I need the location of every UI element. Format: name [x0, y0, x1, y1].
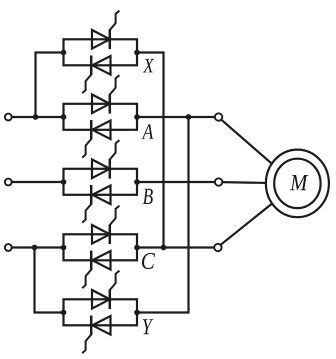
wire A right node to output 1 [137, 116, 215, 118]
thyristor pair block C: frame [64, 234, 138, 260]
wire to X left node [35, 51, 64, 53]
wire L3 to C left node [12, 246, 64, 248]
thyristor VX1 cathode bar [109, 30, 112, 50]
wire output 3 to motor (diagonal) [221, 186, 294, 245]
node junction J2 [32, 245, 38, 251]
thyristor pair block Y: frame [64, 299, 138, 325]
label B [143, 189, 153, 204]
wire C right node to output 3 [137, 246, 215, 248]
thyristor VX2 gate lead [82, 75, 91, 94]
thyristor VY2 cathode bar [90, 316, 93, 336]
node junction bus2 / A row [186, 114, 192, 120]
wire J2 down to Y row [33, 248, 35, 313]
output terminal O1 [215, 113, 222, 120]
label A [142, 124, 154, 139]
input terminal L3 [5, 244, 12, 251]
thyristor VB2 gate lead [82, 204, 91, 223]
node X left [61, 50, 67, 56]
node C left [61, 245, 67, 251]
node B right [134, 179, 140, 185]
label C [142, 253, 155, 269]
wire output 1 to motor (diagonal) [221, 120, 294, 183]
thyristor VX1 gate lead [110, 11, 120, 30]
thyristor VX2 cathode bar [90, 56, 93, 76]
thyristor VY2 (bottom, points left) [92, 316, 110, 335]
thyristor VY1 gate lead [110, 271, 120, 290]
node junction bus1 / C row [161, 245, 167, 251]
motor label M [290, 175, 308, 190]
label X [143, 59, 154, 72]
wire B right node to output 2 [137, 181, 215, 183]
wire bus2 down to Y right node [137, 117, 189, 313]
thyristor VB1 gate lead [110, 140, 120, 159]
thyristor VC1 cathode bar [109, 225, 112, 245]
wire L1 to A left node [12, 116, 64, 118]
thyristor pair block X: frame [64, 39, 138, 65]
thyristor VA1 cathode bar [109, 94, 112, 114]
wire J1 up to X row [34, 53, 36, 118]
thyristor VX2 (bottom, points left) [92, 56, 110, 75]
input terminal L2 [5, 179, 12, 186]
wire output 2 to motor [222, 182, 280, 183]
thyristor VB1 cathode bar [109, 159, 112, 179]
node Y left [61, 310, 67, 316]
thyristor VA2 gate lead [82, 139, 91, 158]
thyristor VC2 gate lead [82, 270, 91, 289]
node Y right [134, 310, 140, 316]
label Y [143, 319, 154, 334]
thyristor VX1 (top, points right) [92, 30, 110, 49]
node junction J1 [33, 114, 39, 120]
thyristor VC1 gate lead [110, 206, 120, 225]
thyristor VA1 (top, points right) [92, 95, 110, 114]
wire L2 to B left node [12, 181, 64, 183]
motor M inner circle [274, 159, 320, 208]
node B left [61, 179, 67, 185]
thyristor pair block B: frame [64, 169, 138, 195]
node C right [134, 245, 140, 251]
node A left [61, 114, 67, 120]
thyristor VB2 (bottom, points left) [92, 186, 110, 205]
thyristor VA2 cathode bar [90, 120, 93, 140]
thyristor VC2 (bottom, points left) [92, 251, 110, 270]
node A right [134, 114, 140, 120]
thyristor VB1 (top, points right) [92, 160, 110, 179]
thyristor VY1 (top, points right) [92, 290, 110, 309]
output terminal O2 [215, 178, 222, 185]
thyristor pair block A: frame [64, 104, 138, 130]
node X right [134, 50, 140, 56]
thyristor VC1 (top, points right) [92, 225, 110, 244]
wire to Y left node [34, 311, 64, 313]
thyristor VY2 gate lead [82, 335, 91, 354]
thyristor VC2 cathode bar [90, 251, 93, 271]
input terminal L1 [5, 114, 12, 121]
motor M outer circle [266, 150, 329, 218]
thyristor VA1 gate lead [110, 75, 120, 94]
thyristor VB2 cathode bar [90, 185, 93, 205]
thyristor VA2 (bottom, points left) [92, 121, 110, 140]
thyristor VY1 cathode bar [109, 290, 112, 310]
wire X right node to bus1 [137, 53, 164, 248]
output terminal O3 [214, 244, 221, 251]
